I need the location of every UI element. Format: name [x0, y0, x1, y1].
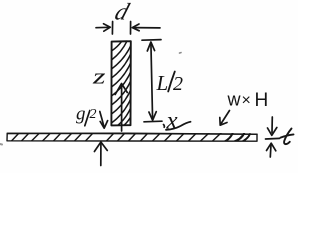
- x axis label (cursive x above ground plane): [166, 108, 191, 135]
- svg-text:z: z: [92, 64, 107, 89]
- L/2 dimension: vertical line with arrowheads: [147, 42, 156, 120]
- svg-text:w: w: [227, 90, 242, 110]
- svg-text:H: H: [255, 90, 269, 111]
- svg-text:d: d: [112, 0, 133, 25]
- g/2 down arrow into the gap: [100, 112, 108, 129]
- label t (plane thickness): [281, 129, 294, 145]
- svg-text:2: 2: [173, 73, 183, 95]
- L/2 dimension: bottom tick: [144, 120, 162, 123]
- svg-text:g: g: [76, 104, 86, 125]
- dimension arrow d right (pointing left): [131, 22, 161, 35]
- strip monopole (hatched vertical bar): [111, 38, 130, 129]
- slash of g/2: [85, 111, 90, 126]
- t dimension: down arrow above plane level: [268, 117, 277, 135]
- small tick left of x: [163, 125, 166, 128]
- label d (width of strip monopole): [112, 0, 133, 25]
- stray ink speck: [180, 52, 182, 54]
- feed arrow below ground plane (pointing up): [94, 142, 107, 166]
- svg-text:×: ×: [242, 92, 251, 109]
- z axis arrow (up through the bar): [115, 84, 127, 132]
- t dimension: middle dash: [266, 137, 280, 140]
- svg-text:2: 2: [90, 107, 97, 122]
- label WxH (ground plane size): [227, 90, 269, 112]
- arrow from WxH to ground plane: [220, 111, 230, 126]
- svg-text:L: L: [156, 71, 169, 95]
- ground plane (hatched horizontal strip): [7, 133, 257, 143]
- t dimension: up arrow below plane level: [267, 143, 276, 157]
- edge smudge left: [0, 143, 2, 146]
- dimension arrow d left (pointing right): [96, 22, 113, 35]
- L/2 dimension: top tick: [142, 39, 161, 42]
- label g/2 (feed gap): [76, 104, 97, 125]
- label L/2: [156, 71, 184, 95]
- z axis label: [92, 64, 107, 89]
